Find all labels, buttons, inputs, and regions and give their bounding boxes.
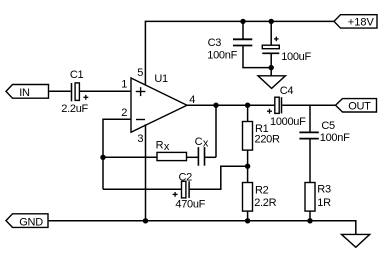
wire right feedback vertical: [215, 105, 217, 157]
svg-text:Rx: Rx: [156, 140, 170, 153]
wire pin 2 and left feedback vertical: [103, 119, 131, 189]
op-amp U1: [131, 73, 187, 132]
wire Rx to Cx: [187, 156, 199, 158]
resistor R1 220R: [243, 105, 280, 166]
wire Cx to right vertical: [205, 156, 217, 158]
svg-text:GND: GND: [19, 216, 43, 228]
node 100uF bottom: [269, 65, 274, 70]
wire feedback to Rx: [103, 156, 157, 158]
svg-text:Cx: Cx: [195, 136, 209, 149]
svg-text:1000uF: 1000uF: [270, 116, 306, 128]
svg-text:+18V: +18V: [348, 16, 375, 28]
svg-text:C2: C2: [179, 171, 193, 183]
svg-text:1R: 1R: [317, 197, 331, 209]
svg-text:OUT: OUT: [348, 101, 371, 113]
svg-text:C4: C4: [280, 85, 294, 97]
svg-text:3: 3: [137, 133, 143, 145]
port tag IN: [6, 85, 49, 100]
svg-text:U1: U1: [154, 73, 168, 85]
node R1 R2 C2: [245, 164, 250, 169]
resistor R2 2.2R: [243, 166, 277, 221]
capacitor Cx: [195, 136, 209, 166]
capacitor C5 100nF: [299, 120, 350, 144]
svg-text:C1: C1: [70, 69, 84, 81]
wire C5 branch down: [309, 105, 311, 221]
wire C1 to pin 1: [79, 90, 131, 92]
capacitor C3 100nF: [207, 37, 252, 62]
capacitor 100uF electrolytic: [262, 37, 311, 63]
wire IN to C1: [49, 90, 71, 92]
wire C3 branch from top rail: [243, 21, 271, 67]
node output R1: [245, 103, 250, 108]
svg-text:2.2R: 2.2R: [254, 197, 276, 209]
svg-text:470uF: 470uF: [175, 199, 205, 211]
wire top rail from pin5 to +18V: [145, 21, 334, 84]
svg-text:100nF: 100nF: [320, 132, 350, 144]
wire bottom feedback to C2: [103, 188, 182, 190]
node top rail C3: [240, 19, 245, 24]
resistor R3 1R: [305, 183, 331, 212]
port tag GND: [6, 214, 48, 229]
svg-text:1: 1: [121, 79, 127, 91]
svg-text:C3: C3: [208, 37, 222, 49]
wire op-amp output: [187, 104, 336, 106]
svg-text:2: 2: [121, 107, 127, 119]
capacitor C1 2.2uF electrolytic: [61, 69, 88, 115]
node R2 at rail: [245, 218, 250, 223]
svg-text:5: 5: [137, 67, 143, 79]
power tag +18V: [334, 15, 377, 29]
wire C2 up to R1 R2 node: [189, 166, 248, 189]
resistor Rx: [156, 140, 187, 161]
svg-text:4: 4: [189, 94, 195, 106]
svg-text:R3: R3: [317, 184, 331, 196]
ground bottom right: [342, 234, 370, 247]
node top rail 100uF: [269, 19, 274, 24]
wire ground rail: [48, 221, 356, 235]
capacitor C4 1000uF electrolytic: [267, 85, 306, 128]
node left feedback tee: [100, 155, 105, 160]
svg-text:100uF: 100uF: [281, 51, 311, 63]
wire pin 3 down to ground rail: [145, 124, 147, 221]
port tag OUT: [336, 99, 377, 113]
capacitor C2 470uF electrolytic: [173, 171, 206, 210]
node R3 at rail: [307, 218, 312, 223]
wire 100uF branch from top rail down to ground: [270, 21, 272, 75]
svg-text:100nF: 100nF: [207, 50, 237, 62]
svg-text:C5: C5: [321, 120, 335, 132]
node output feedback: [213, 103, 218, 108]
svg-text:IN: IN: [19, 87, 30, 99]
ground under 100uF: [258, 76, 285, 89]
svg-text:R2: R2: [255, 184, 269, 196]
svg-text:2.2uF: 2.2uF: [61, 103, 88, 115]
node pin3 at rail: [143, 218, 148, 223]
svg-text:220R: 220R: [255, 133, 280, 145]
